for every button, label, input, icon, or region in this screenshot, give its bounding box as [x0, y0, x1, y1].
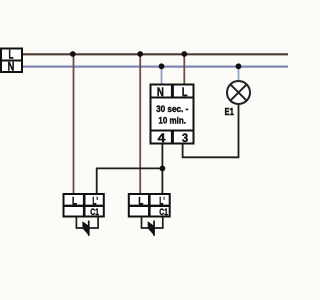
timer body: [151, 98, 194, 131]
wire: black from timer terminal 4 down to junction: [161, 144, 163, 169]
wire: brown drop to switch S1 L terminal: [73, 54, 75, 194]
pushbutton S2 (right, terminals L L' C1): [129, 194, 170, 236]
svg-text:N: N: [8, 62, 15, 74]
wire: brown drop to switch S2 L terminal: [139, 54, 141, 194]
timer terminal row N L: [151, 85, 194, 98]
node: junction on L line above S1: [70, 51, 76, 57]
node: junction on N line above timer: [159, 63, 165, 69]
S2 body: [129, 194, 170, 217]
timer U1 (30 sec - 10 min staircase timer): [151, 85, 194, 145]
svg-text:L': L': [92, 195, 98, 207]
svg-text:E1: E1: [225, 107, 235, 118]
wire: black drop to S1 L' terminal: [96, 168, 98, 195]
lamp E1: [225, 81, 251, 118]
node: junction of wire 4 with S2 branch: [160, 166, 166, 172]
wire: black drop to S2 L' terminal: [161, 168, 163, 194]
svg-text:C1: C1: [159, 207, 168, 218]
node: junction on L line above timer: [181, 51, 187, 57]
svg-text:L: L: [138, 195, 143, 207]
S2 button symbol: [153, 221, 155, 236]
svg-text:N: N: [157, 87, 164, 99]
S2 loop wire: [142, 217, 163, 229]
S1 body: [64, 194, 104, 217]
wire N (neutral, blue horizontal): [22, 65, 288, 67]
svg-text:L: L: [182, 87, 188, 99]
svg-text:L: L: [9, 50, 14, 62]
wire L (phase, brown horizontal): [22, 53, 288, 55]
pushbutton S1 (left, terminals L L' C1): [64, 194, 104, 236]
timer terminal row 4 3: [151, 131, 194, 144]
wire: brown drop to timer U1 L terminal: [183, 54, 185, 85]
wire: blue drop to lamp E1: [238, 66, 240, 82]
svg-text:L': L': [159, 195, 165, 207]
svg-text:L: L: [72, 195, 77, 207]
wire: blue drop to timer U1 N terminal: [161, 66, 163, 84]
svg-text:3: 3: [182, 131, 188, 145]
node: junction on N line above lamp: [236, 63, 242, 69]
wire: black horizontal run to S1: [97, 167, 163, 169]
S1 loop wire: [76, 217, 98, 229]
wire: black from timer terminal 3 to lamp E1: [183, 103, 239, 157]
node: junction on L line above S2: [137, 51, 143, 57]
S1 button symbol: [88, 221, 90, 236]
svg-text:4: 4: [158, 131, 166, 145]
source terminal box L/N: [1, 49, 22, 74]
svg-text:30 sec. -: 30 sec. -: [156, 104, 188, 114]
svg-text:10 min.: 10 min.: [158, 116, 186, 126]
svg-text:C1: C1: [90, 207, 99, 218]
